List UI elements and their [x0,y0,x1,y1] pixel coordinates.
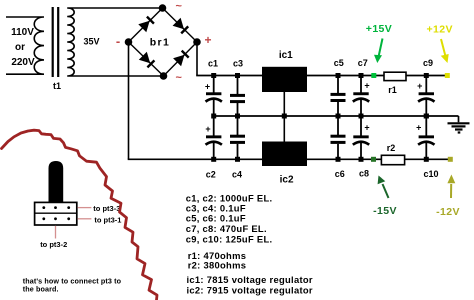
svg-text:r1: r1 [388,85,397,95]
leader line to pt3-2 [55,226,57,239]
junction c7 bottom [359,114,364,119]
svg-text:-15V: -15V [373,205,397,217]
node +12V output square [445,73,450,78]
leader line to pt3-1 [78,218,92,220]
arrow +12V [441,39,449,63]
capacitor c10 (125uF electrolytic) [416,116,434,159]
junction c9 top [424,73,429,78]
capacitor c7 (470uF electrolytic) [353,76,370,117]
svg-text:ic1: ic1 [279,50,293,61]
resistor r2 (380 ohms) [381,155,404,164]
wire bridge minus down [128,42,130,159]
node bridge right (+) [193,38,201,46]
svg-text:br1: br1 [150,37,171,49]
svg-text:c7, c8: 470uF EL.: c7, c8: 470uF EL. [186,223,267,234]
resistor r1 (470 ohms) [384,72,406,80]
svg-text:-: - [116,34,120,49]
junction c1 bottom [211,114,216,119]
wire bottom rail (- rail) [128,158,451,160]
node bridge top (~) [159,4,167,12]
svg-text:+: + [417,81,422,91]
arrow +15V [374,39,383,64]
svg-text:c9: c9 [423,58,433,68]
svg-text:t1: t1 [53,81,61,91]
bridge rectifier br1 diamond edges [129,8,198,76]
svg-text:ic2: 7915 voltage regulator: ic2: 7915 voltage regulator [187,284,313,295]
svg-text:-12V: -12V [436,206,460,218]
svg-text:+: + [204,33,211,47]
node bridge bottom (~) [160,72,168,80]
voltage regulator ic1 (7815) [262,67,307,92]
junction c10 bottom [424,157,429,162]
connector pt3 body [35,202,77,225]
svg-text:c2: c2 [206,170,216,180]
node -15V output square [371,157,376,162]
junction c5 top [336,73,341,78]
junction c6 bottom [336,157,341,162]
capacitor c6 (0.1uF) [331,116,346,159]
svg-text:~: ~ [175,1,182,13]
junction c3 bottom [235,114,240,119]
svg-text:to pt3-2: to pt3-2 [40,240,67,249]
diode D-bottomleft (anode left node, cathode bottom node) [139,52,155,68]
node +15V output square [371,73,376,78]
wire middle rail (ground rail) [214,115,459,117]
svg-text:to pt3-3: to pt3-3 [93,204,120,213]
svg-text:c8: c8 [359,169,369,179]
svg-text:+: + [205,81,210,91]
connector pt3 divider [35,212,77,214]
svg-text:the board.: the board. [23,285,59,294]
capacitor c8 (470uF electrolytic) [353,116,370,159]
diode D-topright (anode top node, cathode right node) [173,18,189,34]
svg-text:+: + [416,123,421,133]
svg-text:220V: 220V [11,57,35,68]
svg-text:c6: c6 [335,169,345,179]
capacitor c1 (1000uF electrolytic) [205,76,222,117]
svg-text:c10: c10 [423,169,438,179]
junction c9 bottom [424,114,429,119]
capacitor c5 (0.1uF) [331,76,346,117]
transformer t1 primary winding [6,17,44,74]
capacitor c9 (125uF electrolytic) [417,76,434,117]
arrow -15V [378,176,389,199]
svg-text:+12V: +12V [426,23,452,35]
svg-text:~: ~ [175,72,182,84]
transformer t1 secondary winding [67,8,163,76]
svg-text:c1: c1 [208,59,218,69]
transformer t1 core [53,7,59,77]
connector pt3 plug [49,161,64,203]
junction c5 bottom [336,114,341,119]
svg-text:r2: r2 [387,143,396,153]
capacitor c4 (0.1uF) [230,116,245,159]
capacitor c3 (0.1uF) [230,76,245,117]
svg-text:or: or [15,42,25,53]
arrow -12V [447,175,455,199]
svg-text:+: + [205,124,210,134]
svg-text:c5: c5 [334,58,344,68]
torn paper edge [2,130,158,300]
svg-text:c3: c3 [233,59,243,69]
junction c3 top [235,73,240,78]
junction c10 top [424,114,429,119]
capacitor c2 (1000uF electrolytic) [205,116,222,159]
node bridge left (-) [125,38,133,46]
svg-text:110V: 110V [11,27,34,38]
wire top rail (+ rail) [196,75,447,77]
wire bridge plus to top rail [196,42,198,76]
ground symbol [448,116,470,133]
svg-text:c7: c7 [358,58,368,68]
leader line to pt3-3 [78,207,92,209]
svg-text:+15V: +15V [366,23,392,35]
connector pt3 pin dots [42,206,70,220]
junction c7 top [359,73,364,78]
svg-text:35V: 35V [83,37,99,47]
junction ic ground pin [282,114,287,119]
svg-text:ic2: ic2 [280,174,294,185]
node -12V output square [448,157,453,162]
svg-text:to pt3-1: to pt3-1 [94,215,121,224]
junction c4 bottom [235,157,240,162]
svg-text:+: + [364,81,369,91]
junction c8 bottom [359,157,364,162]
svg-text:c9, c10: 125uF EL.: c9, c10: 125uF EL. [186,233,273,244]
diode D-bottomright (anode bottom node, cathode right node) [173,51,189,67]
svg-text:r2: 380ohms: r2: 380ohms [188,259,247,270]
voltage regulator ic2 (7915) [262,142,307,167]
junction c1 top [211,73,216,78]
svg-text:c4: c4 [232,170,242,180]
wire ic1 ground pin to ic2 [283,92,285,142]
diode D-topleft (anode left node, cathode top node) [138,17,154,33]
svg-text:+: + [364,123,369,133]
junction c2 bottom [211,157,216,162]
